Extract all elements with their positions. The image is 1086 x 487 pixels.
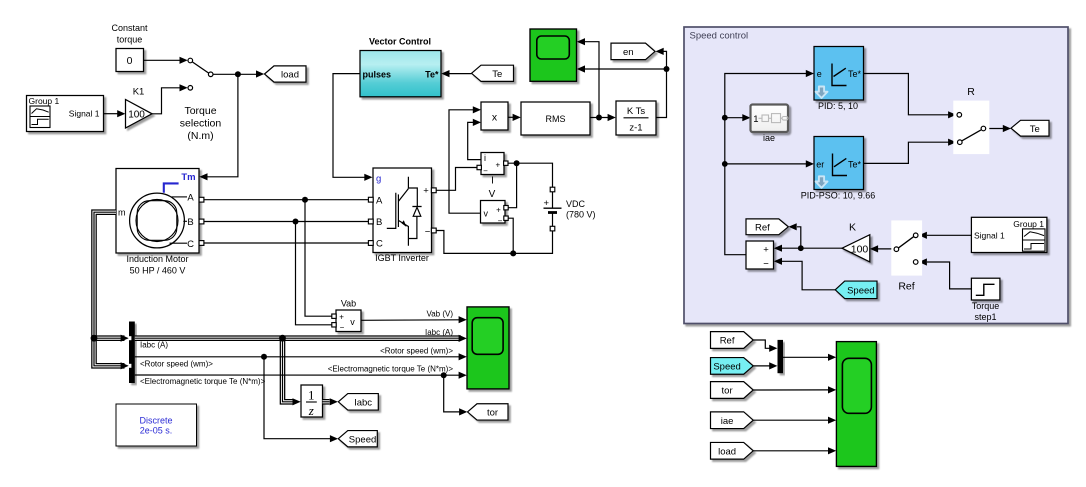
signal label Rotor speed (140, 359, 213, 368)
Vab + port (332, 314, 336, 318)
svg-text:I: I (491, 176, 494, 187)
svg-text:PID: 5, 10: PID: 5, 10 (818, 101, 858, 111)
svg-text:B: B (187, 217, 193, 228)
svg-text:Group 1: Group 1 (29, 96, 60, 106)
svg-text:B: B (376, 217, 382, 228)
from tag Te (center) (472, 65, 514, 81)
label Torque selection (N.m) (180, 105, 222, 142)
svg-text:Torque: Torque (184, 105, 216, 117)
wire i measurement output to product input 2 (468, 119, 481, 160)
svg-text:v: v (350, 317, 355, 327)
svg-text:−: − (425, 227, 431, 238)
svg-text:+: + (495, 160, 500, 169)
wire gain K1 to torque-selection switch input 2 (152, 84, 188, 114)
bus selector bar (128, 322, 134, 384)
wire Group 1 (right) to switch Ref input a (919, 232, 972, 239)
svg-text:+: + (339, 313, 344, 322)
current measurement block i (481, 153, 504, 176)
measurement bus m from motor to bus selector (94, 212, 129, 369)
svg-text:(N.m): (N.m) (187, 130, 213, 142)
svg-text:Te: Te (492, 69, 502, 80)
svg-text:+: + (544, 198, 550, 209)
current measurement left port (477, 165, 481, 169)
wire Group 1 to gain K1 (104, 110, 126, 117)
svg-text:step1: step1 (974, 312, 996, 322)
wire Speed from-tag to sum - input (774, 258, 835, 290)
svg-text:K1: K1 (133, 87, 145, 98)
junction node on controller input line (PID-PSO branch) (722, 161, 728, 167)
svg-text:+: + (496, 206, 501, 215)
wire mux to scope input 1 (783, 354, 836, 361)
label Constant torque (111, 23, 148, 45)
wire v measurement output to product input 1 (449, 106, 481, 213)
junction node DC negative (510, 250, 516, 256)
from tag Speed (panel, cyan) (835, 281, 877, 299)
wire switch Ref to gain K input (870, 245, 894, 252)
scope block (motor scope) (467, 307, 509, 389)
wire iae from-tag to scope input 3 (753, 417, 836, 424)
svg-text:<Electromagnetic torque Te (N*: <Electromagnetic torque Te (N*m)> (328, 365, 454, 374)
svg-text:Discrete: Discrete (139, 415, 172, 425)
junction node RMS output (596, 115, 602, 121)
svg-text:V: V (489, 189, 496, 200)
svg-text:1: 1 (308, 388, 315, 403)
goto tag load (265, 66, 307, 82)
wire sum output to PID/iae/PID-PSO inputs (725, 70, 814, 255)
wire Vab output to scope input 1 (361, 316, 467, 323)
svg-text:e: e (817, 69, 822, 79)
svg-text:Speed: Speed (713, 362, 740, 373)
wire voltage measurement - to DC negative rail (508, 218, 513, 253)
svg-text:en: en (623, 47, 634, 58)
wire phase B motor to inverter (202, 221, 369, 223)
svg-text:RMS: RMS (546, 114, 566, 124)
motor port B (199, 219, 204, 224)
svg-text:x: x (492, 111, 498, 123)
product block x (481, 102, 508, 130)
svg-text:Vab: Vab (341, 298, 356, 308)
wire inverter + to current measurement - terminal (436, 168, 477, 191)
voltage measurement + port (504, 206, 508, 210)
discrete integrator block K Ts/z-1 (616, 101, 656, 135)
label Vector Control (369, 37, 431, 47)
svg-text:(780 V): (780 V) (566, 210, 596, 220)
svg-text:tor: tor (722, 386, 733, 397)
bus Iabc to scope and unit delay (135, 335, 467, 406)
junction node DC positive (514, 160, 520, 166)
svg-text:Vector Control: Vector Control (369, 37, 431, 47)
signal label Rotor speed at scope (380, 346, 453, 355)
manual switch Ref (891, 220, 922, 292)
svg-text:Te*: Te* (848, 69, 862, 79)
junction node Ref branch (798, 245, 804, 251)
svg-text:Ref: Ref (755, 223, 770, 234)
svg-text:+: + (763, 244, 769, 255)
svg-text:100: 100 (128, 110, 145, 121)
signal builder block Group 1 (left) (27, 96, 104, 132)
svg-text:C: C (376, 239, 383, 250)
vector control block (360, 51, 441, 97)
svg-text:Iabc (A): Iabc (A) (425, 328, 453, 337)
junction node integrator output (664, 66, 670, 72)
goto tag Speed (bottom left) (338, 431, 377, 447)
svg-text:Torque: Torque (972, 301, 1000, 311)
svg-text:A: A (376, 195, 383, 206)
svg-text:2e-05 s.: 2e-05 s. (140, 426, 173, 436)
scope block (RMS torque scope) (530, 29, 577, 81)
svg-text:Te*: Te* (425, 69, 439, 79)
label V (489, 189, 496, 200)
from tag Speed (bottom, cyan) (711, 358, 754, 375)
powergui block Discrete 2e-05 s. (116, 404, 197, 446)
scope block (comparison scope) (836, 342, 876, 467)
junction node phase A (Vab tap) (302, 197, 308, 203)
inverter port B (368, 219, 373, 224)
svg-text:C: C (187, 239, 194, 250)
junction node electromagnetic torque (441, 372, 447, 378)
svg-text:Ref: Ref (898, 281, 914, 293)
wire Speed from-tag to mux (753, 362, 777, 369)
signal label Iabc (A) at scope (425, 328, 453, 337)
junction node Iabc bus (279, 335, 286, 342)
svg-text:1: 1 (753, 114, 758, 125)
wire phase B tap to Vab - terminal (296, 222, 332, 325)
svg-text:tor: tor (487, 408, 498, 419)
svg-text:Tm: Tm (181, 172, 195, 183)
svg-text:+: + (423, 186, 429, 197)
signal label EM torque at scope (328, 365, 454, 374)
sum block (+/-) (746, 241, 774, 270)
svg-text:i: i (484, 153, 486, 163)
mux bar (778, 340, 784, 373)
PID controller block U-PID (model reference) (814, 47, 864, 112)
svg-text:Speed: Speed (847, 286, 874, 297)
wire tor from-tag to scope input 2 (753, 386, 836, 393)
wire integrator output to en goto and scope input 2 (577, 48, 667, 118)
step block Torque step1 (971, 278, 1000, 322)
svg-text:load: load (718, 447, 736, 458)
svg-text:Speed: Speed (349, 434, 376, 445)
wire PID output to switch R input 1 (864, 74, 957, 119)
wire phase A tap to Vab + terminal (305, 200, 332, 317)
wire rotor speed branch to Speed goto (264, 357, 338, 443)
current measurement right port (504, 161, 508, 165)
PID-PSO controller block (model reference) (801, 137, 876, 201)
junction node rotor speed (261, 354, 267, 360)
junction node on controller input line (iae branch) (722, 115, 728, 121)
manual switch Torque selection (188, 58, 213, 90)
from tag iae (bottom) (711, 412, 754, 429)
wire vector control pulses to inverter gate g (333, 74, 373, 181)
wire Ref from-tag to mux (753, 340, 777, 352)
constant block 0 (116, 49, 144, 72)
svg-text:Speed control: Speed control (690, 31, 749, 42)
induction motor block (116, 169, 199, 276)
svg-text:m: m (118, 208, 126, 218)
svg-text:−: − (763, 259, 769, 270)
wire current measurement + to DC bus positive (508, 163, 553, 187)
Vab - port (332, 323, 336, 327)
wire rotor speed to scope (135, 353, 467, 360)
svg-text:Iabc: Iabc (354, 398, 372, 409)
svg-text:K: K (849, 221, 856, 233)
wire Te from-tag to vector control Te* input (441, 70, 471, 77)
from tag Ref (bottom) (711, 332, 754, 349)
svg-text:A: A (187, 193, 194, 204)
motor port A (199, 197, 204, 202)
IGBT inverter block (373, 168, 432, 263)
wire constant 0 to torque-selection switch input 1 (144, 57, 188, 64)
junction node phase B (Vab tap) (293, 219, 299, 225)
svg-text:Signal 1: Signal 1 (974, 231, 1005, 241)
wire electromagnetic torque to scope (135, 372, 467, 379)
wire DC positive junction to voltage measurement + (509, 163, 517, 208)
svg-text:Induction Motor: Induction Motor (126, 254, 188, 264)
from tag tor (bottom) (711, 382, 754, 399)
wire torque branch to tor goto (444, 375, 468, 415)
inverter port A (368, 197, 373, 202)
svg-text:Vab (V): Vab (V) (426, 309, 453, 318)
svg-text:pulses: pulses (363, 69, 392, 79)
manual switch R (953, 86, 989, 154)
wire phase C motor to inverter (202, 242, 369, 244)
voltage measurement - port (504, 216, 508, 220)
label I (491, 176, 494, 187)
signal label Vab (V) (426, 309, 453, 318)
svg-text:<Electromagnetic torque Te (N*: <Electromagnetic torque Te (N*m)> (140, 377, 266, 386)
svg-text:Iabc (A): Iabc (A) (140, 341, 168, 350)
signal builder block Group 1 (right, mirrored) (971, 217, 1047, 252)
RMS block (521, 102, 590, 135)
svg-text:0: 0 (127, 55, 133, 67)
svg-text:z-1: z-1 (629, 122, 642, 133)
wire switch R output to Te goto (986, 125, 1011, 132)
svg-text:g: g (376, 173, 381, 184)
wire RMS junction to scope input 1 (577, 38, 599, 117)
from tag load (bottom) (711, 442, 754, 459)
svg-text:VDC: VDC (566, 199, 586, 209)
voltage measurement block Vab (336, 298, 361, 332)
wire PID-PSO output to switch R input 2 (864, 139, 957, 164)
svg-text:−: − (498, 216, 503, 225)
goto tag tor (468, 404, 509, 420)
gain K (triangle, mirrored) (842, 221, 870, 262)
speed control panel (area) (684, 27, 1068, 324)
svg-text:iae: iae (721, 416, 734, 427)
junction node torque (235, 71, 241, 77)
svg-text:<Rotor speed (wm)>: <Rotor speed (wm)> (140, 359, 213, 368)
wire product to RMS (508, 114, 521, 121)
svg-text:Ref: Ref (720, 336, 735, 347)
svg-text:iae: iae (763, 133, 775, 143)
wire gain K output to sum + input (774, 245, 842, 252)
svg-text:selection: selection (180, 118, 222, 130)
svg-text:Te: Te (1030, 124, 1040, 135)
iae subsystem block (751, 105, 789, 144)
signal label Electromagnetic torque (140, 377, 266, 386)
svg-text:−: − (340, 323, 345, 332)
svg-text:v: v (484, 209, 489, 219)
wire phase A motor to inverter (202, 199, 369, 201)
goto tag Te (panel) (1011, 120, 1049, 136)
wire RMS to discrete integrator K Ts/z-1 (590, 114, 616, 121)
wire load from-tag to scope input 4 (753, 447, 836, 454)
svg-text:er: er (816, 160, 824, 170)
svg-text:<Rotor speed (wm)>: <Rotor speed (wm)> (380, 346, 453, 355)
goto tag Iabc (338, 394, 378, 411)
svg-text:load: load (281, 70, 299, 81)
svg-text:Constant: Constant (111, 23, 148, 33)
motor port C (199, 241, 204, 246)
svg-text:100: 100 (851, 243, 869, 255)
voltage measurement block v (481, 201, 506, 226)
svg-text:−: − (483, 167, 488, 176)
wire switch to load goto and motor Tm (213, 70, 264, 77)
battery VDC (780 V) (544, 187, 596, 231)
svg-text:K Ts: K Ts (627, 106, 646, 117)
svg-text:Signal 1: Signal 1 (69, 109, 100, 119)
wire Torque step1 to switch Ref input b (919, 258, 972, 289)
wire inverter - to battery - (negative rail) (436, 231, 553, 254)
svg-text:PID-PSO: 10, 9.66: PID-PSO: 10, 9.66 (801, 191, 876, 201)
inverter port + (DC) (431, 188, 436, 193)
svg-text:Te*: Te* (848, 160, 862, 170)
svg-text:R: R (967, 86, 975, 98)
inverter port - (DC) (431, 228, 436, 233)
bus unit delay output to Iabc goto (323, 398, 338, 405)
svg-text:50 HP / 460 V: 50 HP / 460 V (130, 266, 186, 276)
wire junction to Ref goto (789, 223, 801, 248)
unit delay block 1/z (301, 385, 323, 418)
svg-text:torque: torque (117, 35, 143, 45)
junction node measurement bus (91, 335, 98, 342)
svg-text:Group 1: Group 1 (1013, 219, 1044, 229)
svg-text:IGBT Inverter: IGBT Inverter (375, 253, 429, 263)
svg-text:z: z (308, 403, 314, 418)
goto tag en (mirrored) (611, 43, 655, 60)
signal label Iabc (A) (140, 341, 168, 350)
inverter port C (368, 241, 373, 246)
goto tag Ref (panel) (746, 219, 788, 235)
wire junction down to motor Tm input (199, 74, 238, 180)
gain K1 (triangle) (126, 87, 153, 128)
